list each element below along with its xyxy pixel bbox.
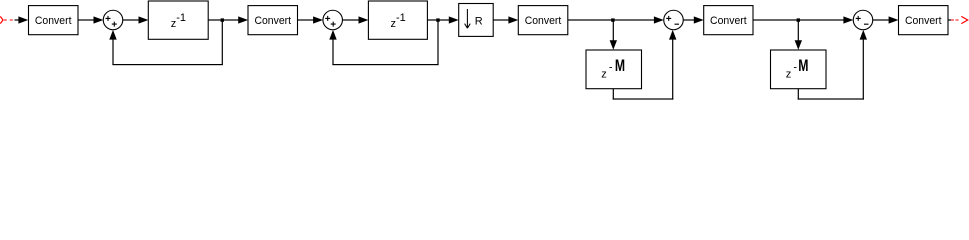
svg-text:M: M (798, 56, 808, 75)
svg-text:-1: -1 (396, 12, 406, 24)
delay block Z2 (z^-1) (368, 1, 427, 39)
wire S1 to Z1 (123, 16, 149, 23)
Convert block C1 (29, 6, 79, 35)
wire C4 to junction J4 and sum S4 (753, 16, 853, 23)
downsample block DS (down-arrow R) (459, 4, 494, 37)
wire J3 down into comb delay ZM1 (610, 20, 617, 50)
Convert block C2 (248, 6, 298, 35)
delay block Z1 (z^-1) (148, 1, 208, 39)
wire feedback FB2 (J2 down, left, up into S2 bottom) (329, 20, 438, 65)
wire ZM1 output (bottom, right, up into S3 bottom) (613, 30, 677, 100)
wire Z2 output to junction J2 and downsample block (427, 16, 458, 23)
svg-text:R: R (475, 16, 483, 28)
Convert block C5 (899, 6, 949, 35)
svg-text:-: - (793, 62, 797, 74)
wire output dashed (red) (951, 19, 959, 21)
junction J4 (797, 18, 800, 21)
comb delay block ZM1 (z^-M) (586, 50, 642, 89)
wire C1 to sum S1 (78, 16, 103, 23)
svg-text:Convert: Convert (35, 15, 72, 27)
wire C3 to junction J3 and sum S3 (568, 16, 664, 23)
svg-text:Convert: Convert (525, 15, 562, 27)
wire output stub (black) (948, 19, 951, 20)
svg-text:-: - (609, 62, 613, 74)
svg-text:-1: -1 (176, 12, 186, 24)
wire DS to Convert3 (493, 16, 518, 23)
svg-text:Convert: Convert (905, 15, 942, 27)
svg-text:M: M (615, 56, 625, 75)
sum S2 (++) (323, 10, 343, 30)
wire S2 to Z2 (342, 16, 368, 23)
wire S3 to Convert4 (683, 16, 703, 23)
wire feedback FB1 (J1 down, left, up into S1 bottom) (109, 20, 223, 65)
wire S4 to Convert5 (873, 16, 899, 23)
Convert block C4 (704, 6, 753, 35)
wire input stub + arrowhead into Convert1 (15, 16, 29, 23)
svg-text:z: z (786, 68, 792, 80)
Convert block C3 (518, 6, 568, 35)
comb delay block ZM2 (z^-M) (771, 50, 827, 89)
svg-text:Convert: Convert (254, 15, 291, 27)
junction J1 (221, 18, 224, 21)
svg-text:Convert: Convert (710, 15, 747, 27)
input port arrow (red chevron) (0, 16, 3, 23)
wire Z1 output to junction J1 and Convert2 (208, 16, 248, 23)
sum S1 (++) (103, 10, 123, 30)
svg-text:z: z (601, 68, 607, 80)
wire ZM2 output (bottom, right, up into S4 bottom) (798, 30, 867, 100)
sum S3 (+-) (664, 10, 684, 30)
junction J3 (611, 18, 614, 21)
sum S4 (+-) (853, 10, 873, 30)
wire J4 down into comb delay ZM2 (795, 20, 802, 50)
wire input dashed (red) (4, 19, 15, 21)
wire C2 to sum S2 (298, 16, 324, 23)
junction J2 (436, 18, 439, 21)
output port arrow (red chevron) (961, 16, 967, 23)
